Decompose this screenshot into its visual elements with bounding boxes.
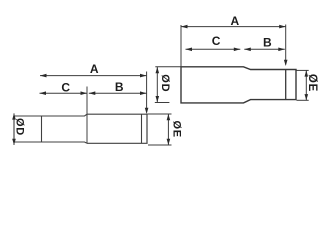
diameter D dimension line (on part left edge) (13, 113, 15, 145)
dimension C line (40, 92, 88, 94)
diameter E top extension tick (148, 113, 172, 115)
dimension C left arrow (40, 91, 47, 95)
dimension B left arrow (89, 91, 96, 95)
diameter E bottom extension tick (297, 99, 309, 101)
dimension A right arrow (279, 25, 286, 29)
dimension B right arrow (140, 91, 147, 95)
svg-text:B: B (115, 80, 124, 94)
svg-text:B: B (263, 36, 272, 50)
diameter E dimension line (167, 114, 169, 145)
svg-text:ØE: ØE (171, 120, 183, 138)
dimension B line (244, 48, 284, 50)
svg-text:A: A (230, 14, 239, 28)
svg-text:C: C (212, 34, 221, 48)
dimension A right arrow (140, 74, 147, 78)
dimension A left arrow (40, 74, 47, 78)
left extension line (180, 25, 182, 70)
diameter D top extension tick (155, 66, 181, 68)
right extension line with down arrow (285, 25, 287, 65)
diameter E top extension tick (297, 69, 309, 71)
dimension B left arrow (244, 48, 251, 52)
dimension B line (89, 92, 147, 94)
svg-text:ØE: ØE (306, 74, 318, 92)
dimension C line (186, 48, 241, 50)
division line small tube (285, 70, 287, 100)
part outline: large cylinder body (181, 67, 296, 103)
svg-text:ØD: ØD (13, 118, 25, 136)
diameter D dimension line (156, 67, 158, 102)
dimension C right arrow (234, 48, 241, 52)
svg-text:C: C (61, 80, 70, 94)
diameter E dimension line (305, 70, 307, 100)
dimension A left arrow (181, 25, 188, 29)
part outline: large cylinder body (87, 114, 147, 143)
dimension A line (40, 75, 147, 77)
step line / C-B extension line (86, 87, 88, 144)
dimension C right arrow (81, 91, 88, 95)
dimension B right arrow (278, 48, 285, 52)
division line large cylinder (141, 114, 143, 143)
svg-text:A: A (90, 62, 99, 76)
svg-text:ØD: ØD (159, 74, 171, 92)
dimension C left arrow (186, 48, 193, 52)
right extension line with down arrow (146, 72, 148, 113)
dimension A line (181, 26, 286, 28)
division line small tube (41, 116, 43, 142)
diameter E bottom extension tick (148, 144, 172, 146)
diameter D bottom extension tick (155, 102, 170, 104)
part outline: small tube body (14, 114, 87, 143)
